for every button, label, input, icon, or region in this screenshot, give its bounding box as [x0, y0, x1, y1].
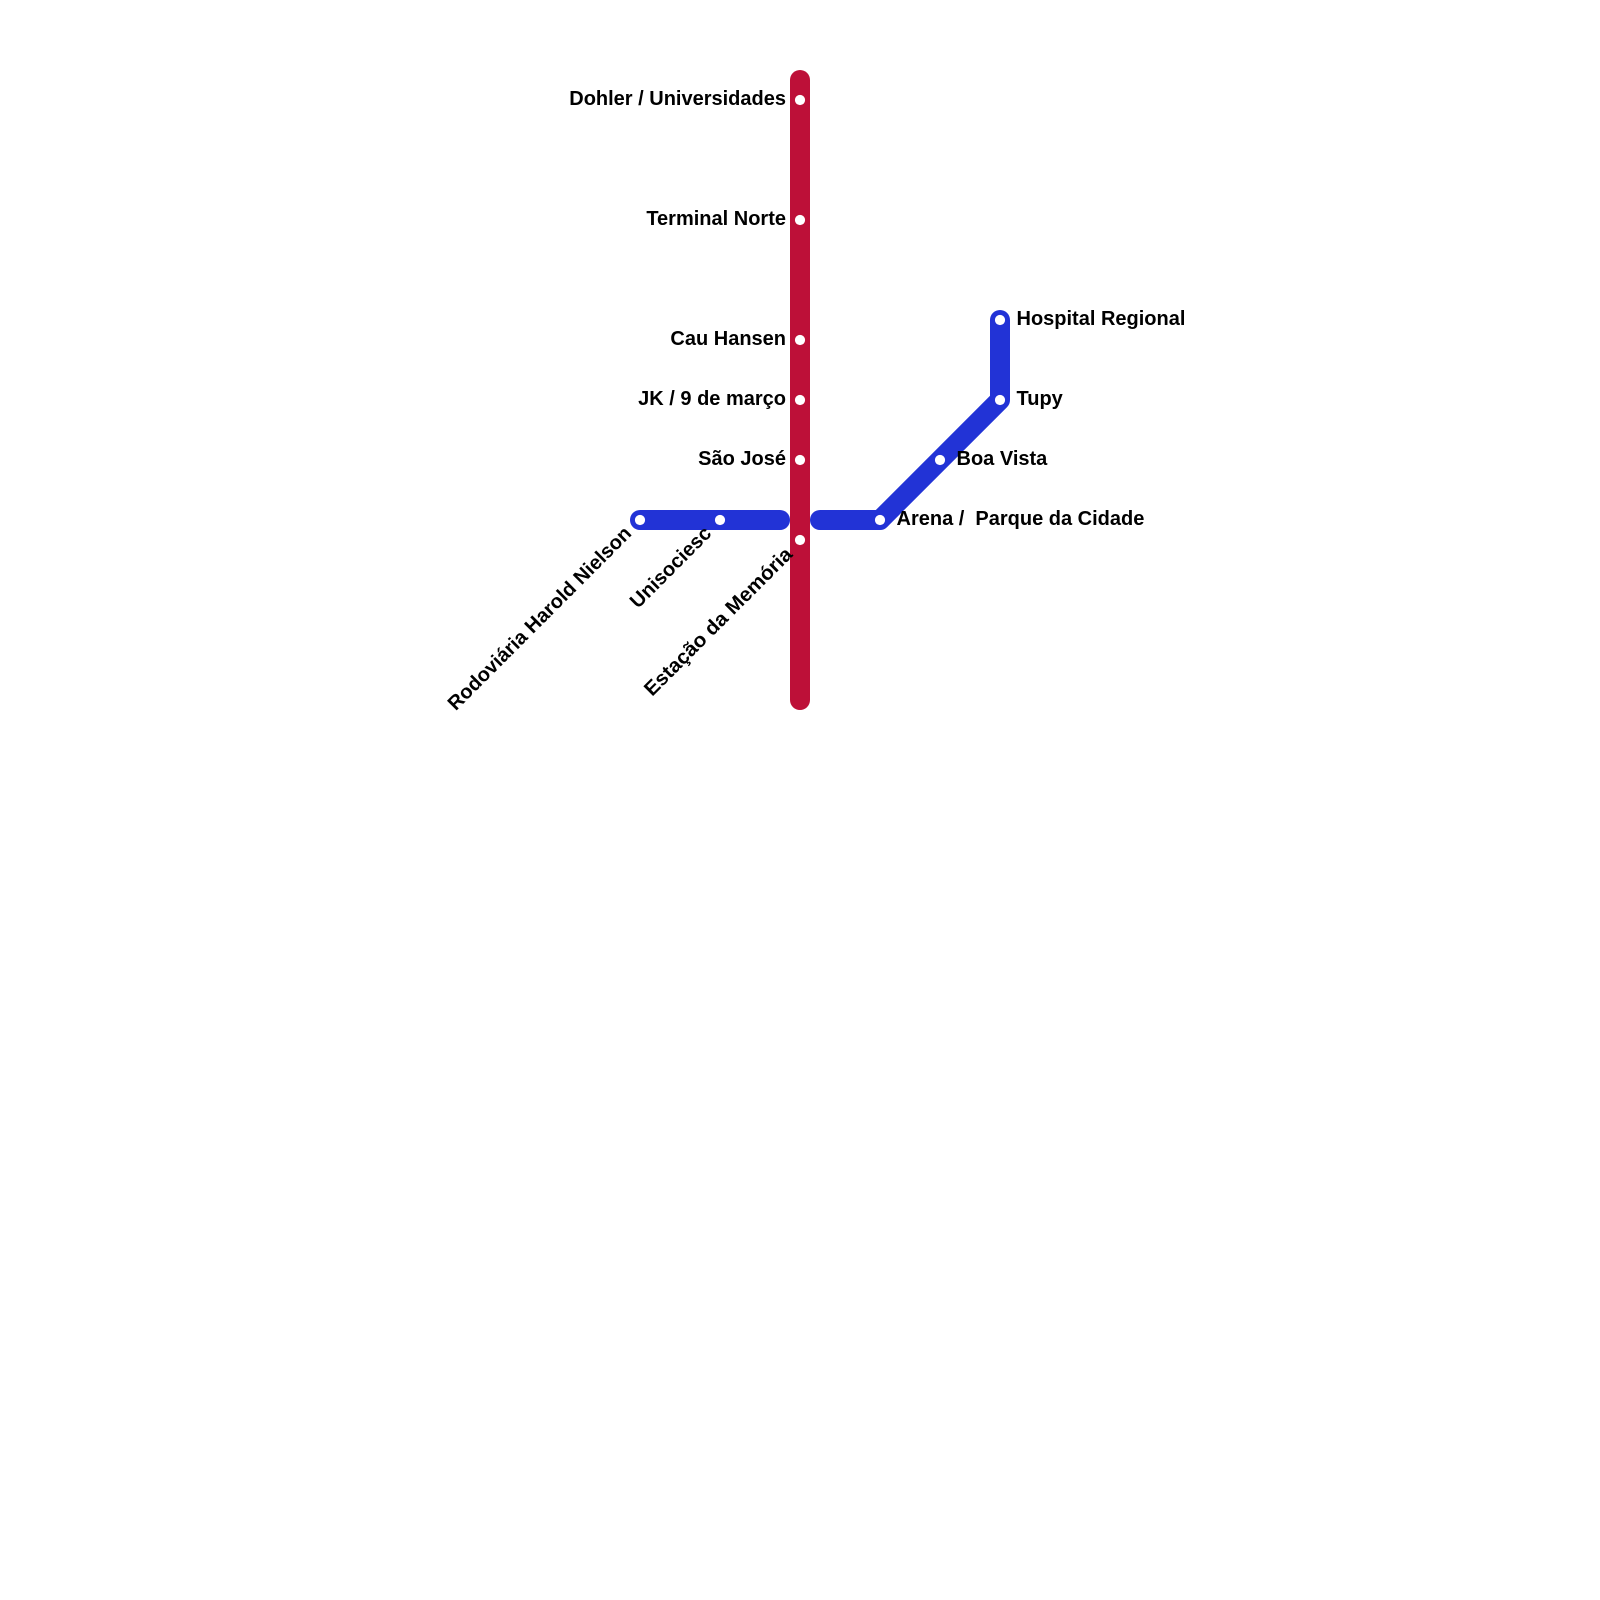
svg-text:Unisociesc: Unisociesc	[626, 523, 716, 613]
station Estação da Memória dot	[795, 535, 805, 545]
station São José dot	[795, 455, 805, 465]
station Dohler / Universidades dot	[795, 95, 805, 105]
svg-text:Arena / Parque da Cidade: Arena / Parque da Cidade	[897, 508, 1145, 530]
blue line east segment (crossing – Arena – Boa Vista – Tupy – Hospital Regional)	[820, 320, 1000, 520]
svg-text:JK / 9 de março: JK / 9 de março	[638, 388, 786, 410]
station Unisociesc dot	[715, 515, 725, 525]
station Arena / Parque da Cidade dot	[875, 515, 885, 525]
blue line west segment (Rodoviária Harold Nielson – Unisociesc)	[640, 510, 780, 530]
svg-text:Boa Vista: Boa Vista	[957, 448, 1049, 470]
station Boa Vista dot	[935, 455, 945, 465]
station Terminal Norte dot	[795, 215, 805, 225]
station Rodoviária Harold Nielson dot	[635, 515, 645, 525]
station Cau Hansen dot	[795, 335, 805, 345]
svg-text:Dohler / Universidades: Dohler / Universidades	[569, 88, 786, 110]
svg-text:Cau Hansen: Cau Hansen	[670, 328, 786, 350]
station Hospital Regional dot	[995, 315, 1005, 325]
svg-text:Terminal Norte: Terminal Norte	[646, 208, 786, 230]
red line (Dohler/Universidades – Estação da Memória)	[790, 80, 810, 700]
station Tupy dot	[995, 395, 1005, 405]
svg-text:Rodoviária Harold Nielson: Rodoviária Harold Nielson	[444, 523, 636, 715]
svg-text:Hospital Regional: Hospital Regional	[1017, 308, 1186, 330]
svg-text:São José: São José	[698, 448, 786, 470]
station JK / 9 de março dot	[795, 395, 805, 405]
svg-text:Tupy: Tupy	[1017, 388, 1064, 410]
